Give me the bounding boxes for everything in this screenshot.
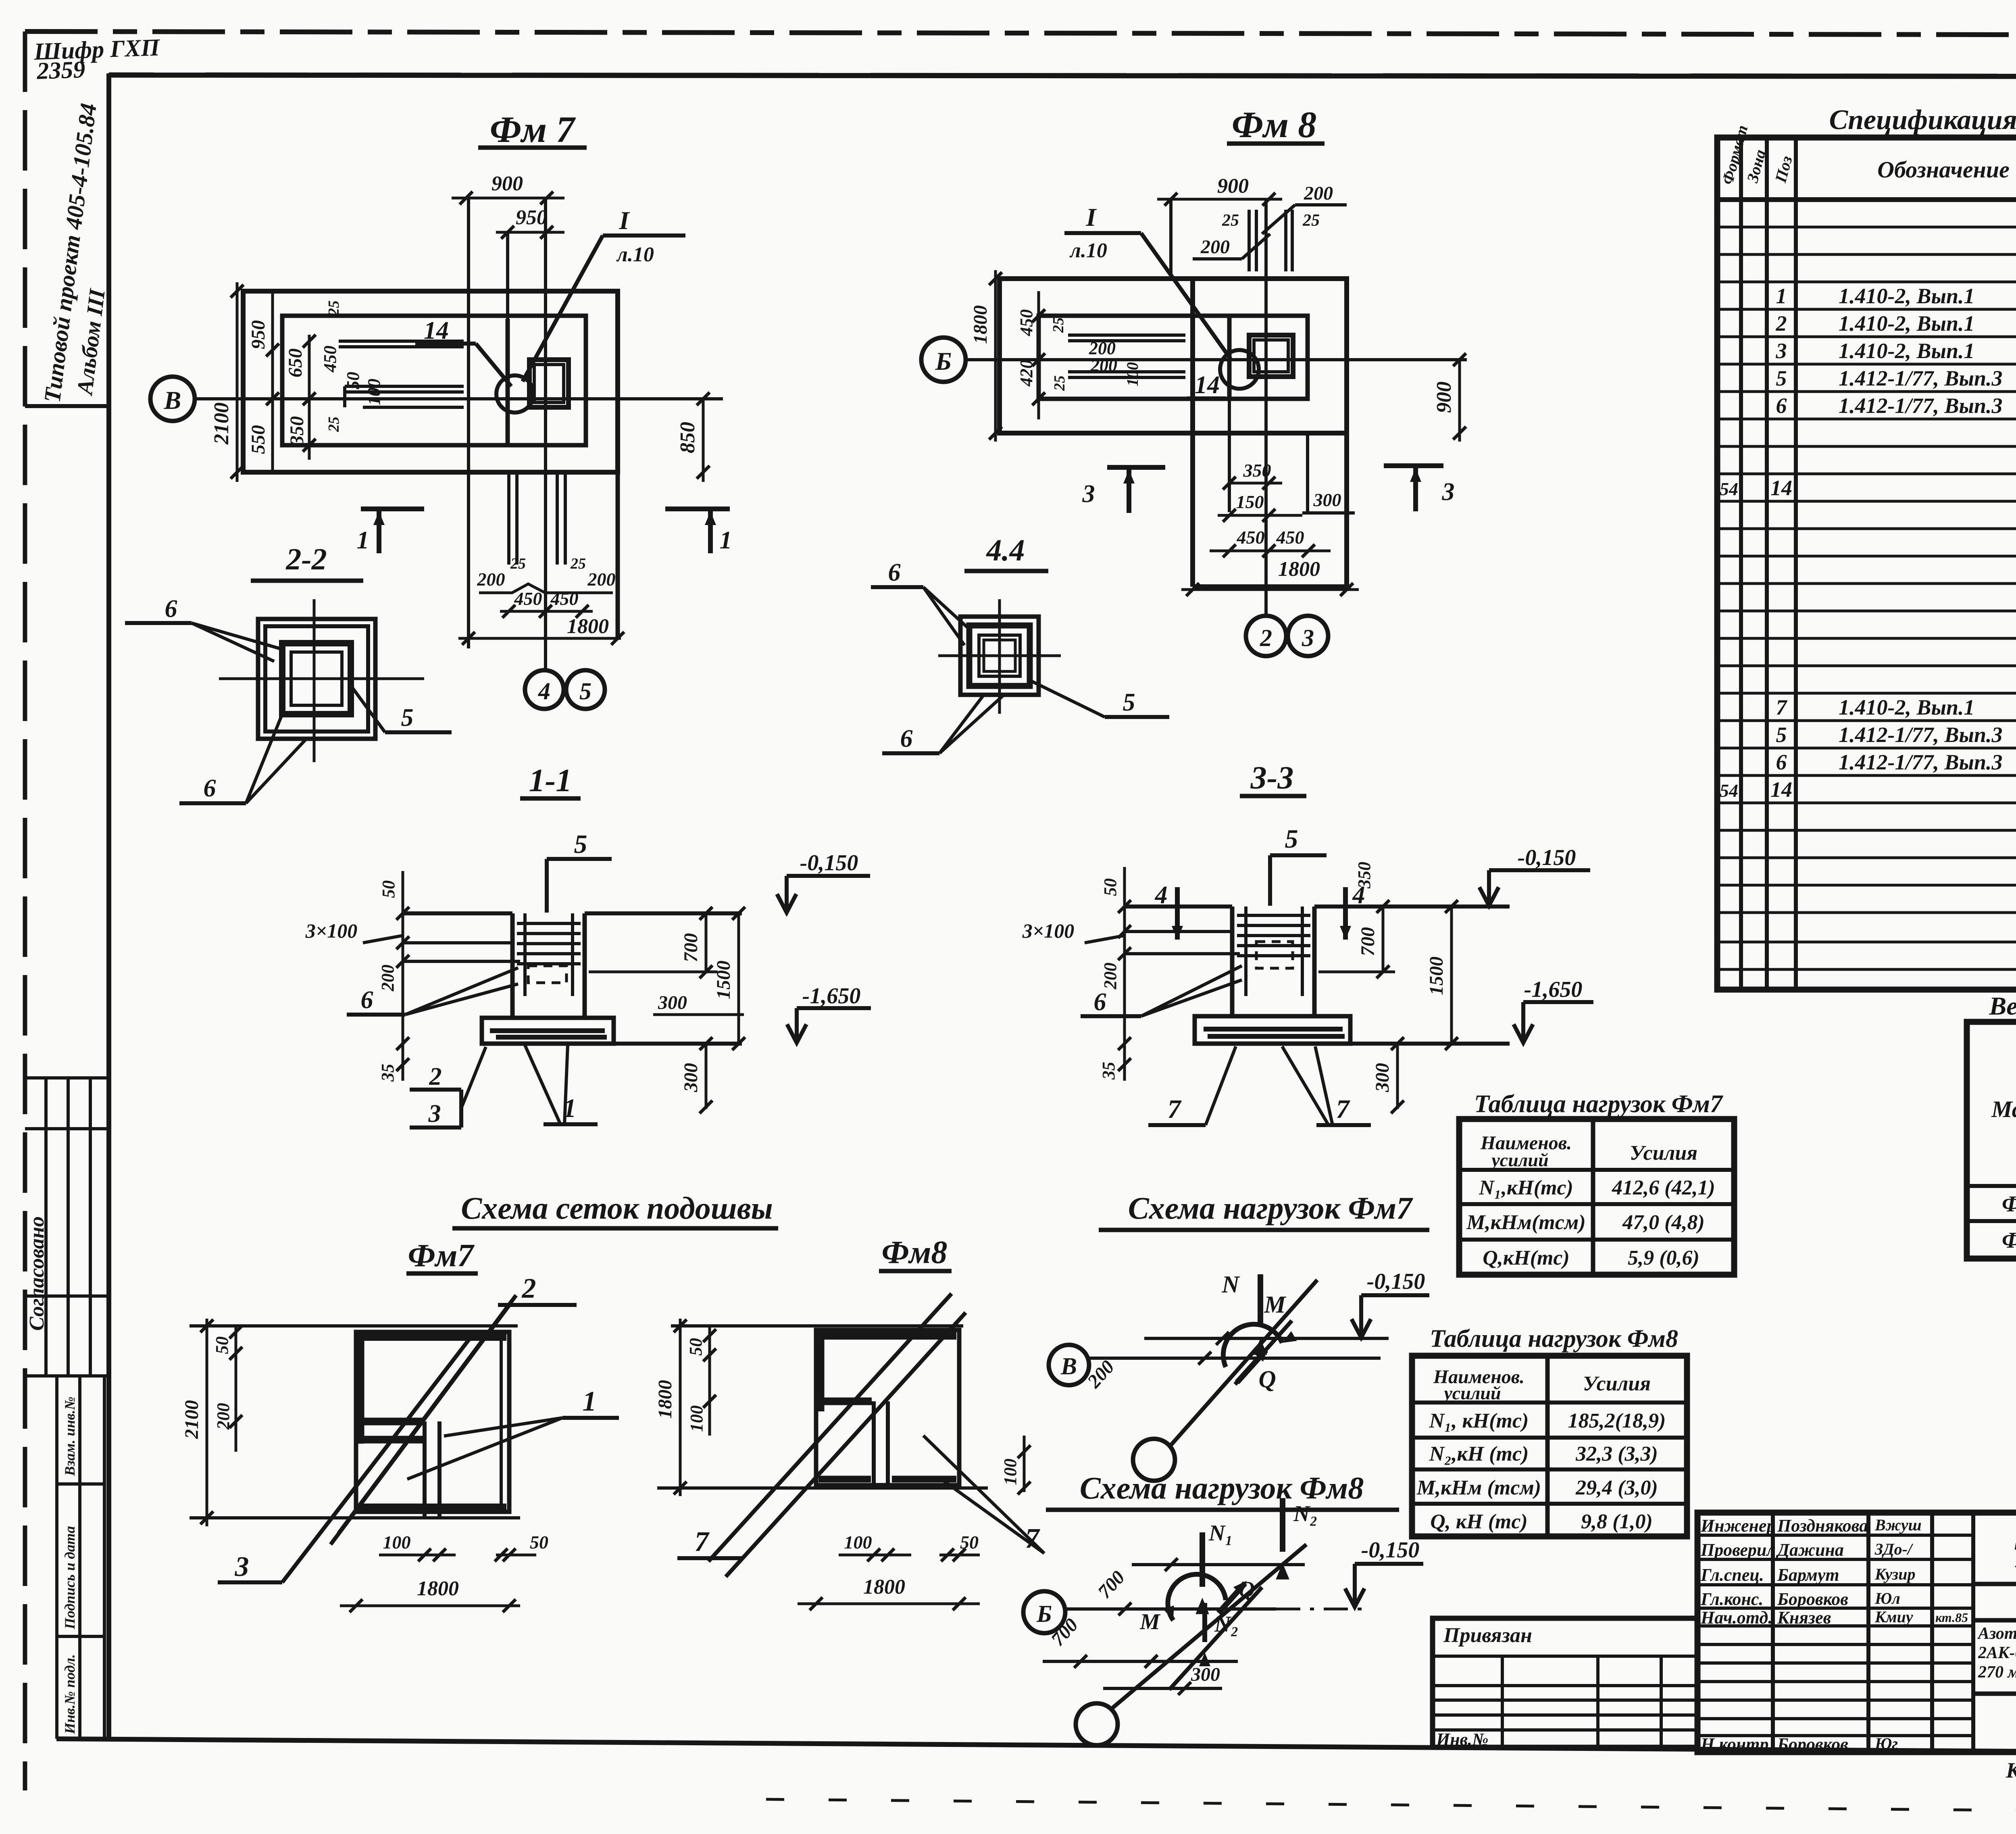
svg-text:7: 7 (1336, 1094, 1351, 1124)
mesh rebar lines in plate (1068, 335, 1185, 377)
svg-text:5: 5 (579, 678, 591, 704)
svg-text:50: 50 (212, 1336, 232, 1354)
svg-text:1: 1 (357, 527, 369, 554)
axis circle В (150, 377, 195, 421)
strip right edge below plate (Фм7) (616, 472, 620, 638)
svg-text:6: 6 (361, 986, 373, 1014)
svg-text:3: 3 (428, 1100, 441, 1127)
column pedestal (1232, 907, 1314, 1016)
soil lines left (1125, 930, 1232, 933)
svg-text:Проверил: Проверил (1700, 1540, 1776, 1560)
svg-text:Q: Q (1258, 1366, 1276, 1392)
svg-text:Фм8: Фм8 (882, 1235, 948, 1270)
svg-text:25: 25 (510, 555, 526, 572)
footing mesh lines (1204, 1029, 1345, 1036)
svg-text:350: 350 (286, 416, 308, 446)
strip bottom edge (1193, 584, 1347, 589)
column outer square (529, 360, 569, 407)
svg-text:200: 200 (1200, 236, 1230, 258)
spec table verticals (1741, 138, 2016, 990)
node circle 14 (1220, 350, 1259, 389)
svg-text:-0,150: -0,150 (1518, 845, 1576, 870)
strip rebar pair right (557, 474, 565, 565)
footing bottom line right (614, 1042, 742, 1046)
svg-text:50: 50 (530, 1532, 548, 1553)
svg-text:Азотно-кислородная станция: Азотно-кислородная станция (1977, 1624, 2016, 1643)
svg-text:2АК-0,135 производительностью: 2АК-0,135 производительностью (1978, 1644, 2016, 1662)
svg-text:7: 7 (1776, 695, 1788, 719)
vedomost frame (1967, 1022, 2016, 1259)
svg-text:650: 650 (285, 348, 306, 377)
sidebar upper stamp grid (25, 1078, 109, 1376)
detail inner square (979, 635, 1020, 676)
axis circle Б (1023, 1591, 1065, 1633)
svg-text:14: 14 (1195, 371, 1220, 399)
svg-text:1800: 1800 (970, 305, 991, 344)
svg-text:300: 300 (680, 1063, 702, 1092)
svg-text:350: 350 (1354, 862, 1374, 889)
svg-text:14: 14 (1770, 777, 1792, 802)
tab7 rows (1459, 1170, 1734, 1240)
svg-text:Юг: Юг (1874, 1734, 1898, 1753)
svg-text:5: 5 (574, 829, 587, 859)
mesh8: thick left bar (818, 1330, 825, 1411)
svg-text:300: 300 (1372, 1063, 1393, 1092)
dim 1800 line (458, 632, 624, 645)
mesh7: vertical pair (423, 1421, 427, 1518)
dash-dot continuation to level mark (1276, 1608, 1371, 1611)
plate inner step rectangle (282, 316, 586, 445)
svg-text:Фм7: Фм7 (408, 1238, 475, 1273)
dim 900 right line (1453, 353, 1466, 442)
vertical centreline of plan Фм8 (1264, 199, 1268, 616)
crosshair (998, 599, 1001, 714)
svg-text:1800: 1800 (567, 615, 609, 638)
svg-text:412,6 (42,1): 412,6 (42,1) (1612, 1176, 1715, 1199)
svg-text:Бармут: Бармут (1777, 1565, 1839, 1585)
svg-text:29,4 (3,0): 29,4 (3,0) (1575, 1476, 1658, 1499)
detail square 2 (265, 626, 368, 732)
svg-text:3: 3 (1776, 339, 1787, 363)
mesh8: top extension line (671, 1324, 963, 1328)
mesh7 left dim 2100 (200, 1319, 213, 1526)
svg-text:50: 50 (1100, 878, 1120, 896)
svg-text:5: 5 (1776, 366, 1787, 390)
dim 450450 line (500, 605, 593, 618)
tab8 frame (1412, 1356, 1687, 1536)
svg-text:25: 25 (1302, 211, 1320, 230)
svg-text:1: 1 (1776, 284, 1787, 308)
svg-text:Гл.спец.: Гл.спец. (1700, 1565, 1764, 1585)
svg-text:Таблица нагрузок Фм8: Таблица нагрузок Фм8 (1430, 1325, 1678, 1353)
callout leader to node circle (523, 236, 603, 381)
column axis circle 4 (525, 670, 564, 709)
svg-text:Гл.конс.: Гл.конс. (1700, 1589, 1763, 1609)
plate outline Фм7 (243, 291, 618, 472)
svg-text:В: В (1060, 1353, 1077, 1380)
svg-text:6: 6 (1776, 394, 1787, 418)
svg-text:1800: 1800 (863, 1576, 905, 1598)
callout I л.10 bar (603, 233, 685, 238)
column inner square (1254, 340, 1288, 372)
svg-text:6: 6 (1776, 750, 1787, 774)
N2 arrow (1280, 1498, 1285, 1552)
svg-text:1800: 1800 (417, 1577, 459, 1600)
column zone divider (506, 319, 510, 445)
inner frame left (106, 73, 111, 1739)
svg-text:M: M (1264, 1291, 1287, 1318)
mesh8 right dim 100 (1018, 1436, 1031, 1494)
ground line left (1125, 904, 1232, 909)
svg-text:Князев: Князев (1777, 1608, 1831, 1628)
svg-text:900: 900 (492, 172, 523, 195)
svg-text:усилий: усилий (1442, 1383, 1501, 1403)
svg-text:700: 700 (680, 933, 702, 962)
svg-text:300: 300 (658, 992, 687, 1013)
ground line right (1314, 904, 1510, 909)
svg-text:2: 2 (429, 1063, 442, 1090)
sheet outer dashed border left (23, 31, 27, 1790)
dim 1800 left line (989, 270, 1002, 442)
tab8 divider (1545, 1356, 1550, 1536)
svg-text:5: 5 (1776, 723, 1787, 747)
N2 lower arrow (1202, 1603, 1207, 1642)
column outer square (1249, 335, 1293, 377)
mesh lines inside plate (left part) (339, 341, 464, 407)
svg-text:450: 450 (320, 346, 340, 373)
svg-text:270 м³/ч азота и 70м³/ч кислор: 270 м³/ч азота и 70м³/ч кислорода (1978, 1663, 2016, 1682)
section mark 1 right (665, 509, 730, 553)
sidebar divider (25, 404, 109, 408)
title underline (478, 146, 587, 150)
svg-text:9,8 (1,0): 9,8 (1,0) (1581, 1510, 1653, 1533)
mesh7: right thin double (500, 1332, 503, 1512)
horizontal centreline axis B (195, 397, 723, 400)
mesh8 left dim 1800 (674, 1319, 687, 1496)
bottom circle (1076, 1703, 1118, 1745)
svg-text:Ведомость расхода стали на эле: Ведомость расхода стали на элемент,кг (1989, 992, 2016, 1020)
plate outline Фм8 (horizontal arm) (1000, 279, 1347, 433)
svg-text:ТП 405-4-105.84: ТП 405-4-105.84 (2012, 1534, 2016, 1575)
svg-text:Q: Q (1239, 1577, 1255, 1602)
svg-text:Марка: Марка (1991, 1096, 2016, 1122)
svg-text:I: I (1086, 203, 1097, 231)
staff row lines (1697, 1535, 1973, 1736)
svg-text:25: 25 (1051, 375, 1068, 391)
svg-text:Н.контр.: Н.контр. (1700, 1734, 1773, 1754)
svg-text:Привязан: Привязан (1443, 1624, 1532, 1647)
mesh8 dims 50 / 100 (703, 1326, 716, 1436)
dim 2100 line (231, 282, 244, 482)
left dim line (396, 871, 409, 1081)
svg-text:2: 2 (522, 1273, 536, 1304)
svg-text:5,9 (0,6): 5,9 (0,6) (1628, 1246, 1699, 1269)
vedomost horizontals (1967, 1056, 2016, 1221)
ground line left (403, 911, 512, 915)
svg-text:-0,150: -0,150 (800, 850, 858, 875)
svg-text:6: 6 (888, 559, 901, 586)
tab7 frame (1459, 1119, 1734, 1275)
detail square 2 thick (969, 625, 1030, 686)
section mark 1 left (361, 509, 424, 553)
svg-text:2-2: 2-2 (285, 542, 327, 576)
spec table header bottom (1717, 197, 2016, 202)
upper horizontal line (1144, 1337, 1389, 1340)
svg-text:1.412-1/77, Вып.3: 1.412-1/77, Вып.3 (1839, 750, 2003, 774)
inner frame / sheet bottom border (56, 1739, 2016, 1754)
svg-text:1.410-2, Вып.1: 1.410-2, Вып.1 (1839, 339, 1975, 363)
lower circle (1133, 1439, 1175, 1481)
svg-text:Усилия: Усилия (1583, 1372, 1651, 1395)
svg-text:54: 54 (1720, 780, 1738, 801)
mesh7 diagonal leader for 2 (339, 1295, 516, 1533)
svg-text:-0,150: -0,150 (1367, 1269, 1425, 1294)
long diagonal (1169, 1280, 1317, 1447)
svg-text:450: 450 (550, 588, 579, 609)
svg-text:200: 200 (1100, 963, 1120, 990)
spec table row lines (1717, 227, 2016, 969)
svg-text:N₁, кН(тс): N₁, кН(тс) (1429, 1409, 1529, 1432)
svg-text:25: 25 (325, 300, 342, 316)
svg-text:1.410-2, Вып.1: 1.410-2, Вып.1 (1839, 311, 1975, 336)
svg-text:3×100: 3×100 (1022, 919, 1075, 942)
svg-text:550: 550 (248, 425, 269, 454)
mesh7 dims 50 / 200 (229, 1325, 242, 1452)
svg-text:54: 54 (1720, 479, 1738, 499)
mesh8: thick top bar (818, 1332, 956, 1340)
dashed anchor box (528, 966, 566, 983)
mesh8: middle bar (816, 1398, 872, 1405)
svg-text:-1,650: -1,650 (802, 984, 861, 1009)
mesh8: vertical pair (872, 1401, 876, 1485)
horizontal line top (1132, 1563, 1305, 1566)
svg-text:950: 950 (516, 206, 547, 229)
soil lines left (403, 941, 512, 944)
svg-text:3: 3 (1442, 478, 1455, 506)
dim 850 right line (697, 392, 710, 482)
right dim 1500 (1445, 900, 1458, 1050)
svg-text:850: 850 (676, 422, 699, 453)
svg-text:N: N (1221, 1271, 1240, 1298)
svg-text:1.412-1/77, Вып.3: 1.412-1/77, Вып.3 (1839, 723, 2003, 747)
svg-text:Б: Б (935, 347, 952, 375)
reference vertical left (900 dim) (1169, 199, 1173, 279)
horizontal line bottom (1103, 1687, 1222, 1690)
svg-text:Инв.№ подл.: Инв.№ подл. (62, 1654, 78, 1734)
label 14 underline (415, 342, 476, 346)
svg-text:усилий: усилий (1489, 1150, 1548, 1170)
svg-text:35: 35 (1099, 1062, 1118, 1080)
svg-text:900: 900 (1433, 381, 1456, 413)
svg-text:1: 1 (583, 1386, 597, 1417)
svg-text:25: 25 (570, 555, 586, 572)
right dim 700 (1377, 900, 1389, 978)
svg-text:100: 100 (844, 1532, 872, 1553)
rebar pair top left (1249, 210, 1256, 271)
M moment arc (1168, 1574, 1226, 1620)
column inner square (534, 365, 564, 402)
stirrups (517, 913, 581, 996)
svg-text:л.10: л.10 (616, 243, 654, 266)
svg-text:47,0 (4,8): 47,0 (4,8) (1622, 1211, 1705, 1234)
title block outer (1697, 1513, 2016, 1752)
ground line right (585, 911, 742, 915)
node circle 14 (496, 375, 533, 413)
svg-text:100: 100 (383, 1532, 411, 1553)
mesh7: bottom extension line (190, 1516, 520, 1519)
svg-text:М,кНм(тсм): М,кНм(тсм) (1466, 1211, 1585, 1234)
svg-text:1.412-1/77, Вып.3: 1.412-1/77, Вып.3 (1839, 366, 2003, 390)
svg-text:Q, кН (тс): Q, кН (тс) (1430, 1510, 1528, 1533)
dashed anchor box (1256, 942, 1293, 968)
svg-text:14: 14 (1770, 476, 1792, 500)
svg-text:N₂: N₂ (1293, 1501, 1318, 1526)
staff column lines (1773, 1513, 1973, 1752)
column strip verticals (1190, 279, 1195, 587)
svg-text:кт.85: кт.85 (1935, 1610, 1968, 1625)
left dim line (1118, 867, 1131, 1081)
svg-text:Фм8: Фм8 (2002, 1228, 2016, 1253)
svg-text:Обозначение: Обозначение (1877, 156, 2010, 183)
svg-text:Позднякова: Позднякова (1777, 1516, 1868, 1536)
svg-text:M: M (1139, 1609, 1161, 1634)
dim 900 line (1157, 193, 1282, 206)
svg-text:50: 50 (379, 880, 398, 898)
svg-text:Взам. инв.№: Взам. инв.№ (62, 1396, 78, 1476)
svg-text:Копировал: Копировал (2006, 1758, 2016, 1782)
detail crosshair horizontal (219, 677, 424, 680)
mesh7: outer square (356, 1332, 509, 1512)
svg-text:1: 1 (720, 527, 732, 554)
svg-text:1.410-2, Вып.1: 1.410-2, Вып.1 (1839, 695, 1975, 719)
svg-text:6: 6 (165, 595, 177, 623)
right dim 700 (700, 907, 712, 978)
svg-text:Таблица нагрузок Фм7: Таблица нагрузок Фм7 (1474, 1090, 1724, 1118)
horizontal centreline axis Б (966, 358, 1467, 361)
svg-text:700: 700 (1357, 927, 1379, 956)
svg-text:Спецификация на элемент констр: Спецификация на элемент конструкции (1829, 104, 2016, 135)
svg-text:5: 5 (1123, 689, 1135, 716)
section mark 3 right (1384, 466, 1443, 511)
svg-text:В: В (164, 386, 181, 415)
svg-text:7: 7 (1168, 1094, 1182, 1124)
ticks (1165, 1558, 1178, 1571)
mesh8: outer square (816, 1330, 959, 1485)
svg-text:450: 450 (1237, 527, 1265, 548)
reference vertical through column (506, 232, 509, 445)
detail outer square (960, 617, 1039, 695)
big cell ТП 405-4-105.84 (1973, 1582, 2016, 1586)
footing bottom line right (1350, 1042, 1510, 1046)
mesh8: thick bottom bars (818, 1476, 871, 1483)
svg-text:3: 3 (1302, 625, 1314, 651)
svg-text:-0,150: -0,150 (1361, 1538, 1420, 1563)
column axis circle 5 (566, 670, 605, 709)
svg-text:3: 3 (1082, 480, 1095, 508)
detail square 3 (thick) (282, 643, 351, 714)
svg-text:Схема сеток подошвы: Схема сеток подошвы (461, 1190, 773, 1225)
svg-text:50: 50 (343, 372, 363, 390)
axis circle Б (921, 338, 966, 382)
svg-text:1500: 1500 (713, 961, 734, 999)
svg-text:3: 3 (235, 1551, 249, 1582)
M moment arc (1223, 1324, 1282, 1367)
svg-text:185,2(18,9): 185,2(18,9) (1568, 1409, 1666, 1432)
svg-text:100: 100 (1123, 362, 1141, 386)
svg-text:Усилия: Усилия (1630, 1142, 1697, 1165)
svg-text:N₁,кН(тс): N₁,кН(тс) (1479, 1176, 1573, 1199)
svg-text:Инв.№: Инв.№ (1436, 1730, 1489, 1749)
svg-text:3×100: 3×100 (305, 919, 358, 942)
svg-text:5: 5 (1285, 824, 1298, 854)
detail outer square (258, 619, 375, 739)
strip rebar pair left (509, 474, 517, 565)
svg-text:6: 6 (900, 725, 913, 752)
right dim 1500 (732, 907, 745, 1050)
svg-text:Вжуш: Вжуш (1874, 1516, 1922, 1534)
svg-text:100: 100 (1000, 1459, 1020, 1485)
N force arrow (1258, 1274, 1263, 1327)
svg-text:900: 900 (1217, 175, 1249, 198)
detail innermost (984, 640, 1015, 671)
svg-text:2359: 2359 (36, 56, 85, 84)
svg-text:25: 25 (1222, 211, 1239, 230)
mesh7: middle bars (356, 1418, 423, 1426)
main diagonal (1111, 1544, 1306, 1709)
svg-text:3-3: 3-3 (1250, 760, 1294, 796)
lower horizontal line through axis (1089, 1357, 1381, 1360)
dim line 950/550 (266, 291, 279, 472)
svg-text:ЗДо-/: ЗДо-/ (1874, 1540, 1914, 1558)
svg-text:Боровков: Боровков (1777, 1589, 1848, 1609)
bottom dim 300 rot (1391, 1037, 1404, 1113)
stirrups (1237, 907, 1310, 996)
svg-text:25: 25 (1050, 317, 1067, 333)
svg-text:100: 100 (364, 379, 384, 405)
sidebar lower stamp grid (25, 1376, 109, 1739)
N1 arrow (1200, 1532, 1205, 1587)
inner step rect (1039, 316, 1308, 399)
tab8 rows (1412, 1403, 1687, 1504)
spec table frame (1717, 138, 2016, 990)
svg-text:Нач.отд.: Нач.отд. (1700, 1608, 1772, 1628)
svg-text:32,3 (3,3): 32,3 (3,3) (1575, 1442, 1658, 1465)
svg-text:Боровков: Боровков (1777, 1734, 1848, 1754)
svg-text:М,кНм (тсм): М,кНм (тсм) (1416, 1476, 1541, 1499)
svg-text:I: I (619, 206, 630, 235)
svg-text:300: 300 (1191, 1664, 1220, 1685)
svg-text:2100: 2100 (210, 402, 233, 445)
svg-text:Кузир: Кузир (1874, 1565, 1916, 1583)
second diagonal (1169, 1587, 1262, 1690)
Q arrow (1218, 1583, 1245, 1613)
mesh7: thick top bar (359, 1333, 506, 1341)
svg-text:Б: Б (1036, 1601, 1052, 1627)
svg-text:200: 200 (378, 965, 398, 992)
svg-text:2: 2 (1776, 311, 1787, 336)
object cell divider (1973, 1618, 2016, 1623)
horizontal line 3 (1043, 1660, 1238, 1663)
detail crosshair vertical (313, 599, 316, 762)
mesh7: thick bottom bar (359, 1504, 506, 1511)
tab7 divider (1591, 1119, 1595, 1275)
svg-text:Схема нагрузок Фм7: Схема нагрузок Фм7 (1128, 1190, 1413, 1225)
svg-text:Фм 8: Фм 8 (1232, 104, 1316, 145)
svg-text:1800: 1800 (654, 1380, 676, 1419)
svg-text:1800: 1800 (1278, 558, 1320, 581)
reference vertical line left of column strip (467, 198, 470, 648)
svg-text:50: 50 (686, 1338, 706, 1356)
